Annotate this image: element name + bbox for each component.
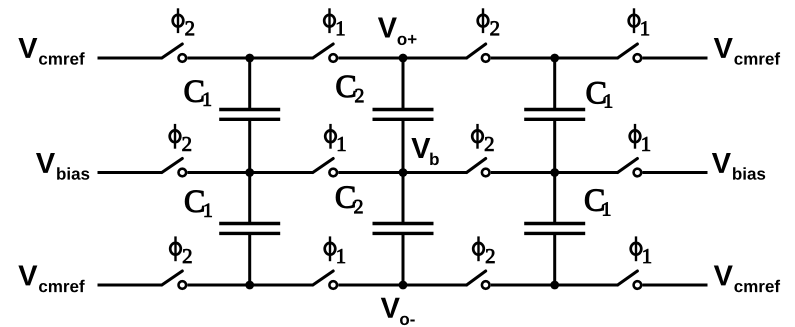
label phi2 for switch 1, top row	[173, 8, 194, 35]
wire: bottom row between switch 3 and switch 4	[491, 284, 619, 287]
junction: right column at bottom row	[550, 281, 559, 290]
wire: middle column, top row to upper capacitor	[402, 58, 405, 108]
value label C2 (lower middle capacitor)	[336, 186, 362, 213]
wire: top row right feed	[643, 57, 708, 60]
wire: left column, lower capacitor to bottom row	[248, 235, 251, 285]
capacitor C1 (lower left)	[219, 224, 280, 234]
wire: bottom row between switch 1 and switch 2	[187, 284, 313, 287]
value label C1 (lower left capacitor)	[185, 191, 211, 217]
capacitor C2 (upper middle)	[373, 110, 434, 120]
switch phi2 (top row, position 3)	[467, 44, 490, 62]
wire: middle column, lower capacitor to bottom row	[402, 235, 405, 285]
label phi2 for switch 3, top row	[478, 8, 499, 35]
label phi1 for switch 2, middle row	[325, 124, 345, 151]
switch phi2 (bottom row, position 3)	[467, 271, 490, 289]
junction: left column at middle row	[245, 168, 254, 177]
wire: bottom row right feed	[643, 284, 708, 287]
label phi1 for switch 2, top row	[324, 8, 344, 35]
wire: middle row between switch 2 and switch 3	[338, 171, 467, 174]
wire: left column, top row to upper capacitor	[248, 58, 251, 108]
value label C2 (upper middle capacitor)	[337, 76, 364, 102]
wire: top row between switch 1 and switch 2	[187, 57, 313, 60]
label phi2 for switch 3, bottom row	[473, 236, 494, 263]
wire: top row between switch 2 and switch 3	[338, 57, 467, 60]
capacitor C1 (upper right)	[524, 110, 585, 120]
capacitor C1 (lower right)	[524, 224, 585, 234]
switch phi2 (bottom row, position 1)	[162, 271, 186, 289]
label phi1 for switch 4, middle row	[630, 124, 650, 151]
wire: right column, lower capacitor to bottom row	[553, 235, 556, 285]
switch phi2 (top row, position 1)	[162, 44, 186, 62]
junction: middle column at top row	[399, 54, 408, 63]
switch phi1 (bottom row, position 2)	[313, 271, 337, 289]
label phi1 for switch 2, bottom row	[325, 236, 345, 263]
label phi2 for switch 3, middle row	[472, 124, 493, 151]
label phi1 for switch 4, bottom row	[631, 236, 651, 263]
label phi1 for switch 4, top row	[629, 8, 649, 35]
value label C1 (lower right capacitor)	[585, 189, 610, 215]
value label C1 (upper right capacitor)	[587, 82, 612, 107]
junction: left column at top row	[245, 54, 254, 63]
switch phi2 (middle row, position 3)	[467, 159, 490, 177]
wire: middle row left feed	[98, 171, 163, 174]
switch phi1 (top row, position 4)	[618, 44, 642, 62]
wire: top row left feed	[98, 57, 163, 60]
node Vcmref (bottom right terminal)	[714, 265, 780, 292]
switch phi1 (middle row, position 4)	[618, 159, 642, 177]
node Vo+ (positive output)	[378, 18, 417, 46]
node Vb (bias node)	[411, 138, 438, 165]
value label C1 (upper left capacitor)	[185, 81, 211, 106]
junction: middle column at middle row	[399, 168, 408, 177]
wire: left column, upper capacitor through middle row to lower capacitor	[248, 121, 251, 222]
switch phi1 (top row, position 2)	[313, 44, 337, 62]
label phi2 for switch 1, bottom row	[170, 236, 191, 263]
switch phi1 (bottom row, position 4)	[618, 271, 642, 289]
junction: left column at bottom row	[245, 281, 254, 290]
wire: middle row between switch 1 and switch 2	[187, 171, 313, 174]
wire: bottom row left feed	[98, 284, 163, 287]
switch phi2 (middle row, position 1)	[162, 159, 186, 177]
node Vcmref (top right terminal)	[714, 38, 780, 65]
junction: right column at top row	[550, 54, 559, 63]
wire: bottom row between switch 2 and switch 3	[338, 284, 467, 287]
wire: top row between switch 3 and switch 4	[491, 57, 619, 60]
junction: middle column at bottom row	[399, 281, 408, 290]
wire: middle row right feed	[643, 171, 708, 174]
wire: middle row between switch 3 and switch 4	[491, 171, 619, 174]
wire: right column, top row to upper capacitor	[553, 58, 556, 108]
node Vcmref (bottom left terminal)	[18, 265, 84, 292]
wire: middle column, upper capacitor through middle row to lower capacitor	[402, 121, 405, 222]
capacitor C2 (lower middle)	[373, 224, 434, 234]
node Vbias (middle right terminal)	[712, 153, 765, 180]
node Vbias (middle left terminal)	[36, 153, 89, 180]
junction: right column at middle row	[550, 168, 559, 177]
node Vcmref (top left terminal)	[18, 38, 84, 65]
label phi2 for switch 1, middle row	[170, 124, 191, 151]
wire: right column, upper capacitor through middle row to lower capacitor	[553, 121, 556, 222]
switch phi1 (middle row, position 2)	[313, 159, 337, 177]
capacitor C1 (upper left)	[219, 110, 280, 120]
node Vo- (negative output)	[381, 298, 415, 325]
